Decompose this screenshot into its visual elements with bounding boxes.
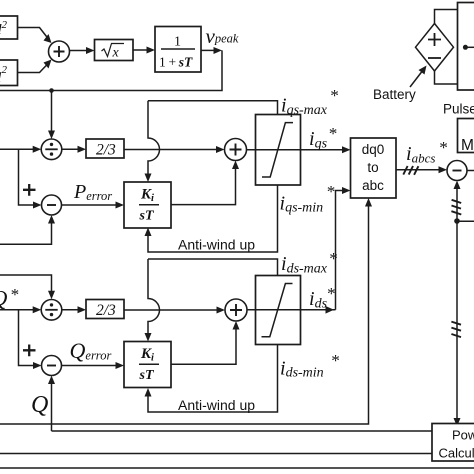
wire vpeak dot to divider D1 (51, 91, 53, 135)
wire ids* up into dq0 (336, 191, 346, 310)
wire battery to converter (435, 10, 458, 24)
svg-text:iqs-min: iqs-min (280, 193, 324, 216)
svg-text:2/3: 2/3 (96, 302, 116, 319)
svg-text:Q*: Q* (0, 285, 19, 311)
block M (pulse generator, clipped) (458, 119, 474, 153)
summer S1 (+) (49, 41, 70, 62)
wire P* input (0, 148, 36, 150)
converter block top right (clipped) (458, 3, 474, 91)
wire Q divider top input (0, 275, 52, 295)
wire L2 lower limit / anti-windup 2 (148, 345, 278, 413)
svg-text:*: * (439, 138, 448, 157)
svg-text:1: 1 (174, 35, 181, 50)
svg-text:to: to (367, 160, 378, 175)
node dc link dot (463, 45, 468, 50)
block 1/(1+sT) (155, 27, 201, 73)
wire Q* input (0, 309, 36, 311)
wire Ki/sT Q output up into S5 (171, 327, 236, 365)
svg-text:sT: sT (139, 209, 155, 224)
svg-text:Perror: Perror (73, 181, 112, 203)
wire P feedback bus (0, 453, 432, 455)
divider D2 (41, 300, 62, 321)
svg-text:dq0: dq0 (362, 142, 385, 157)
svg-text:*: * (326, 182, 335, 201)
wire sqrt to lag block (133, 49, 150, 51)
svg-text:*: * (328, 124, 337, 143)
wire Q* branch to summer S4 (19, 310, 37, 366)
block Vd2 (squared input block, clipped at left) (0, 16, 18, 39)
block Ki/sT (P integrator) (124, 182, 171, 228)
svg-text:vpeak: vpeak (206, 24, 239, 48)
wire P feedback into S2 (0, 220, 52, 244)
svg-text:*: * (326, 284, 335, 303)
svg-text:iqs-max: iqs-max (281, 95, 328, 119)
wire Vq2 to summer S1 (18, 62, 51, 73)
block sqrt(x) (95, 40, 134, 61)
wire iabcs* output with 3-phase slashes (396, 169, 442, 171)
label plus sign P (23, 184, 36, 196)
svg-text:2/3: 2/3 (96, 142, 116, 159)
svg-text:ML: ML (461, 137, 474, 154)
wire branch to converter measurement (457, 220, 474, 222)
battery label arrow (410, 70, 424, 88)
svg-text:Anti-wind up: Anti-wind up (178, 397, 255, 413)
summer S3 (+) (225, 139, 247, 161)
divider D1 (41, 139, 62, 160)
block dq0 to abc (351, 138, 397, 198)
wire Vd2 to summer S1 (18, 28, 51, 42)
battery source diamond (416, 24, 454, 72)
wire measured current into S6 with slashes (456, 186, 458, 421)
wire measurement bus bottom (0, 467, 474, 469)
svg-text:ids-min: ids-min (280, 358, 324, 381)
svg-text:Qerror: Qerror (70, 338, 112, 363)
block Ki/sT (Q integrator) (124, 342, 171, 388)
wire 2/3 to summer S5 (124, 309, 220, 311)
svg-text:*: * (330, 86, 339, 105)
wire S1 to sqrt block (70, 50, 90, 52)
svg-text:iabcs: iabcs (406, 143, 435, 166)
label plus sign Q (23, 345, 36, 357)
svg-text:Anti-wind up: Anti-wind up (178, 237, 255, 253)
node current branch dot (454, 218, 460, 224)
wire iqs* into dq0 block (342, 146, 351, 153)
svg-text:*: * (329, 249, 338, 268)
wire vpeak output, down and back left (201, 49, 216, 51)
svg-text:Ki: Ki (140, 187, 154, 205)
limiter L2 (saturation ids) (256, 276, 301, 345)
node vpeak junction dot (49, 88, 54, 93)
wire P* branch to summer S2 (19, 149, 37, 205)
summer S6 (current comparison, minus) (447, 161, 467, 181)
svg-text:iqs: iqs (309, 128, 328, 152)
block 2/3 (ds) (86, 300, 124, 319)
3-phase slashes lower group (451, 322, 461, 338)
svg-text:Power: Power (452, 428, 474, 443)
block Power Calculation (clipped right) (432, 424, 474, 462)
wire angle input to dq0 bottom (0, 204, 369, 425)
summer S4 (Q error, minus) (42, 356, 62, 376)
block 2/3 (qs) (86, 139, 124, 158)
wire S6 output to converter (467, 170, 474, 172)
svg-text:Q: Q (31, 392, 48, 418)
svg-text:*: * (331, 351, 340, 370)
wire 2/3 to summer S3 (124, 149, 220, 151)
wire S3 through limiter L1 to dq0 (247, 149, 346, 151)
svg-text:ids-max: ids-max (281, 253, 328, 277)
wire D2 to 2/3 block (62, 309, 81, 311)
wire S2 to Ki/sT (62, 204, 119, 206)
svg-text:abc: abc (362, 178, 384, 193)
svg-text:x: x (112, 46, 120, 61)
wire L1 lower limit / anti-windup 1 (148, 185, 278, 252)
svg-text:Pulse: Pulse (443, 102, 474, 117)
wire Q feedback into S4 and to power calc (51, 381, 53, 432)
limiter L1 (saturation iqs) (256, 115, 301, 186)
svg-text:d2: d2 (0, 19, 8, 38)
wire Ki/sT output up into S3 (171, 166, 236, 205)
svg-text:Ki: Ki (140, 346, 154, 364)
block Vq2 (squared input block, clipped at left) (0, 60, 18, 86)
svg-text:ids: ids (309, 288, 328, 312)
summer S2 (P error, minus) (42, 195, 62, 215)
summer S5 (+) (225, 299, 247, 321)
wire iqs-max route with hop over 2/3 wire (148, 101, 160, 177)
svg-text:Calculation: Calculation (439, 446, 474, 461)
svg-text:Battery: Battery (373, 87, 416, 102)
svg-text:sT: sT (139, 368, 155, 383)
svg-text:1 + sT: 1 + sT (159, 55, 193, 70)
wire D1 to 2/3 block (62, 148, 81, 150)
wire ids-max route with hop (148, 259, 160, 337)
svg-text:q2: q2 (0, 64, 8, 83)
wire S4 to Ki/sT Q (62, 365, 119, 367)
wire S5 through limiter L2 (247, 309, 336, 311)
